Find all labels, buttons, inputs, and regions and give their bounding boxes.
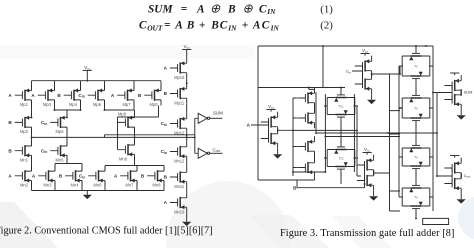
wire A-bar riser <box>278 98 298 176</box>
svg-text:Mn9: Mn9 <box>119 157 128 162</box>
svg-text:TG: TG <box>414 64 418 68</box>
svg-text:Vcc: Vcc <box>184 44 190 50</box>
transistor Mn7 (NMOS, gate A) <box>120 166 137 188</box>
svg-text:B: B <box>8 120 12 125</box>
pass transistor T2 <box>298 108 315 129</box>
transistor Mp5 (PMOS, gate Cin) <box>50 112 67 134</box>
wire B-bar lead <box>374 74 400 211</box>
svg-text:B: B <box>8 148 12 153</box>
ground symbol (left block) <box>86 191 88 195</box>
wire Mn5 drain to Mn3 Mn4 Mn6 sources <box>55 156 82 171</box>
transmission gate TG1 <box>324 88 358 125</box>
power symbol Vcc (left block) <box>83 69 92 71</box>
transistor Mp2 (PMOS, gate B) <box>15 112 32 134</box>
transistor Mp11 (PMOS, gate B) <box>170 83 187 105</box>
transistor Mn2 (NMOS, gate A) <box>15 166 32 188</box>
transistor Mp3 (PMOS, gate A) <box>38 85 55 107</box>
wire Vcc rail (left block) <box>32 81 162 90</box>
svg-text:Mn7: Mn7 <box>126 183 135 188</box>
inverter SUM driver <box>198 113 207 123</box>
wire column1 drain chain <box>31 100 33 171</box>
inverter U5 (Cout driver) <box>444 156 470 204</box>
transistor Mn10 (NMOS, gate A) <box>170 192 187 214</box>
svg-text:Vcc: Vcc <box>268 104 274 110</box>
ground symbol (output column) <box>186 218 188 222</box>
transistor Mn12 (NMOS, gate Cin) <box>170 141 187 163</box>
svg-text:B: B <box>59 174 63 179</box>
svg-text:Cout: Cout <box>464 173 471 179</box>
wire bottom return loop <box>416 218 449 224</box>
inverter U4 (SUM driver) <box>444 73 472 120</box>
transistor Mn6 (NMOS, gate Cin) <box>88 166 105 188</box>
svg-text:Mn1: Mn1 <box>20 158 29 163</box>
transistor Mp8 (PMOS, gate B) <box>144 85 161 107</box>
transistor Mn8 (NMOS, gate B) <box>147 166 164 188</box>
wire SUM inverter feed <box>433 93 452 177</box>
svg-text:TG: TG <box>414 155 418 159</box>
svg-text:Mn4: Mn4 <box>71 183 80 188</box>
svg-text:TG: TG <box>414 195 418 199</box>
transistor Mn3 (NMOS, gate A) <box>38 166 55 188</box>
svg-text:TG: TG <box>414 106 418 110</box>
svg-text:Mp4: Mp4 <box>69 102 78 107</box>
wire Mp6-Mp7 drains <box>105 100 135 112</box>
svg-text:Cin: Cin <box>346 69 352 75</box>
wire right TG gate links <box>415 82 417 218</box>
svg-text:Mn11: Mn11 <box>174 184 185 189</box>
wire lower distribution <box>293 130 361 176</box>
transistor Mp7 (PMOS, gate A) <box>117 85 134 107</box>
label Mp9 gate wire loop <box>118 106 159 150</box>
transistor Mp4 (PMOS, gate B) <box>64 85 81 107</box>
svg-text:Mp11: Mp11 <box>174 100 185 105</box>
svg-text:Mp5: Mp5 <box>56 129 65 134</box>
transistor Mp1 (PMOS, gate A) <box>15 85 32 107</box>
inverter Cout driver <box>198 148 207 158</box>
pass transistor T1 <box>298 88 315 109</box>
svg-text:Mn3: Mn3 <box>44 183 53 188</box>
inverter U1 (A inverter) <box>261 104 282 159</box>
svg-text:Mp8: Mp8 <box>150 102 159 107</box>
svg-text:Mp6: Mp6 <box>93 102 102 107</box>
svg-text:Mn6: Mn6 <box>94 183 103 188</box>
wire output column chain <box>186 78 188 217</box>
wire ground rail <box>32 181 165 191</box>
transistor Mp10 (PMOS, gate A) <box>170 58 187 80</box>
svg-text:Figure 2. Conventional CMOS fu: Figure 2. Conventional CMOS full adder [… <box>0 226 213 237</box>
svg-text:B: B <box>57 93 61 98</box>
wire mid bus <box>293 92 437 172</box>
pass transistor T4 <box>298 157 315 178</box>
svg-text:Cin: Cin <box>41 148 47 154</box>
wire top rail <box>258 46 433 180</box>
svg-text:A: A <box>8 93 12 98</box>
wire Mp9 drain chain <box>134 127 136 144</box>
transmission gate TG4 <box>399 88 433 128</box>
wire Cin-bar distribution <box>372 66 403 74</box>
svg-text:A: A <box>114 174 118 179</box>
wire pass column chain <box>309 89 315 160</box>
svg-text:Mn2: Mn2 <box>20 183 29 188</box>
transistor Mn1 (NMOS, gate B) <box>15 140 32 162</box>
svg-text:Mp9: Mp9 <box>118 112 127 117</box>
transistor Mp9 (PMOS) <box>118 112 135 133</box>
wire Mn9 drain to Mn7 Mn8 sources <box>105 156 164 171</box>
transistor Mn9 (NMOS) <box>118 139 135 161</box>
svg-text:SUM: SUM <box>213 110 223 115</box>
svg-text:(2): (2) <box>320 19 333 31</box>
transistor Mp6 (PMOS, gate Cin) <box>88 85 105 107</box>
transistor Mn4 (NMOS, gate B) <box>65 166 82 188</box>
inverter U3 (B inverter) <box>357 147 378 201</box>
power symbol Vcc (output column) <box>182 49 191 51</box>
svg-text:Cin: Cin <box>161 121 167 127</box>
transmission gate TG6 <box>399 178 433 216</box>
svg-text:A: A <box>32 174 36 179</box>
svg-text:Cin: Cin <box>78 93 84 99</box>
wire inverter input riser <box>195 118 198 153</box>
wire SUM bus line <box>32 136 195 138</box>
svg-text:A: A <box>111 93 115 98</box>
transmission gate TG3 <box>399 46 433 86</box>
svg-text:Mp10: Mp10 <box>174 75 185 80</box>
svg-text:B: B <box>138 93 142 98</box>
wire right TG column rails <box>399 46 433 211</box>
svg-text:Mn12: Mn12 <box>174 158 185 163</box>
svg-text:Mp7: Mp7 <box>123 102 132 107</box>
pass transistor T3 <box>298 136 315 157</box>
transistor Mp12 (PMOS, gate Cin) <box>170 113 187 135</box>
svg-text:TG2: TG2 <box>338 156 344 160</box>
svg-text:Vcc: Vcc <box>84 65 90 71</box>
transistor Mn5 (NMOS, gate Cin) <box>50 140 67 162</box>
svg-text:Mp3: Mp3 <box>43 102 52 107</box>
svg-text:A: A <box>8 174 12 179</box>
wire TG column verticals <box>325 121 400 185</box>
svg-text:A: A <box>31 93 35 98</box>
svg-text:Cin: Cin <box>79 174 85 180</box>
svg-text:TG1: TG1 <box>338 104 344 108</box>
svg-text:Mp2: Mp2 <box>20 129 29 134</box>
transmission gate TG2 <box>324 140 358 177</box>
svg-text:SUM: SUM <box>464 90 473 95</box>
svg-text:Mp1: Mp1 <box>20 102 29 107</box>
wire Mp3-Mp4 drains to Mp5 source <box>55 100 81 117</box>
svg-text:B: B <box>141 174 145 179</box>
svg-text:Mn10: Mn10 <box>174 209 185 214</box>
svg-text:Mn5: Mn5 <box>56 158 65 163</box>
wire Mp5 drain to Mn5 source <box>66 127 68 145</box>
svg-text:(1): (1) <box>320 3 333 15</box>
wire input B lead <box>258 178 365 188</box>
wire input A lead <box>251 124 269 126</box>
inverter U2 (Cin inverter) <box>355 48 376 104</box>
transmission gate TG5 <box>399 138 433 176</box>
wire Cout bus line <box>105 135 195 138</box>
svg-text:Mp12: Mp12 <box>174 130 185 135</box>
wire junction dots <box>31 45 438 219</box>
svg-text:Mn8: Mn8 <box>153 183 162 188</box>
transistor Mn11 (NMOS, gate B) <box>170 167 187 189</box>
svg-text:Vcc: Vcc <box>364 147 370 153</box>
svg-text:Cin: Cin <box>41 120 47 126</box>
wire upper distribution <box>258 88 345 92</box>
wire input Cin lead <box>352 66 363 84</box>
svg-text:Vcc: Vcc <box>362 48 368 54</box>
svg-text:Cin: Cin <box>161 149 167 155</box>
svg-text:Figure 3. Transmission gate fu: Figure 3. Transmission gate full adder [… <box>280 228 455 239</box>
